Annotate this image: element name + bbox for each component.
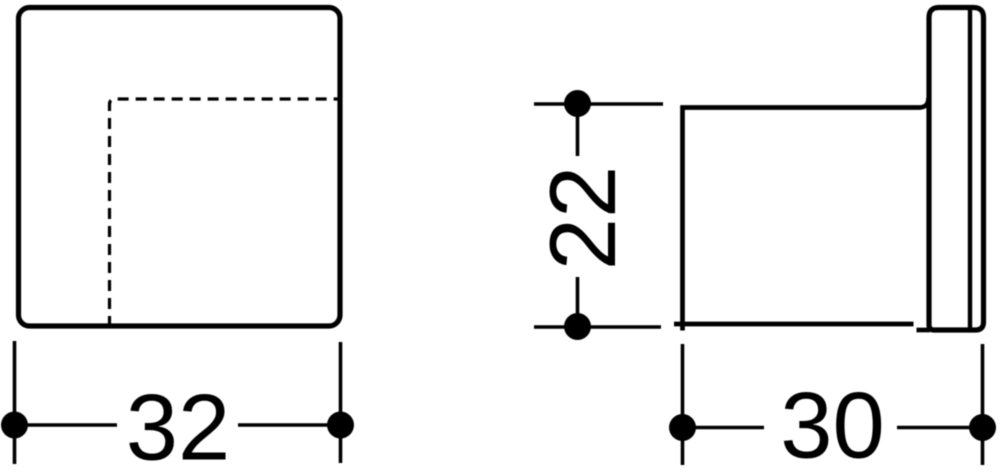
dimension dot left (30): [669, 414, 696, 441]
hidden edge dashed lines (front view): [110, 99, 340, 327]
side view wall plate: [917, 8, 984, 331]
side view body outline: [674, 98, 929, 331]
front view outline (rounded square): [19, 8, 341, 327]
dimension dot bottom (22): [564, 313, 591, 340]
svg-text:30: 30: [780, 373, 885, 472]
extension line right (dim 32): [339, 342, 343, 463]
svg-text:32: 32: [126, 375, 231, 472]
dimension line 22: [576, 104, 580, 327]
wall plate inner edge line: [968, 9, 972, 328]
extension line top (dim 22): [534, 102, 663, 106]
extension line left (dim 30): [681, 344, 685, 465]
dimension dot right (32): [327, 412, 354, 439]
dimension line 30: [683, 426, 983, 430]
dimension line 32: [15, 423, 341, 427]
dimension dot left (32): [1, 412, 28, 439]
svg-text:22: 22: [530, 166, 635, 271]
dimension dot top (22): [564, 90, 591, 117]
dimension dot right (30): [969, 414, 996, 441]
extension line right (dim 30): [981, 344, 985, 465]
extension line left (dim 32): [13, 341, 17, 464]
extension line bottom (dim 22): [534, 325, 661, 329]
